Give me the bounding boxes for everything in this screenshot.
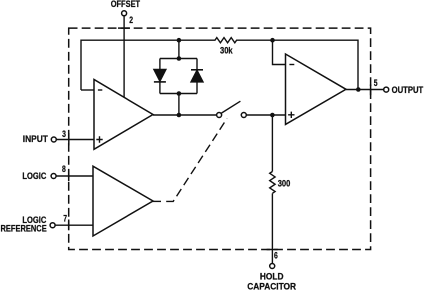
wire: rail drop to U2 inverting input (273, 40, 286, 64)
svg-text:7: 7 (63, 214, 67, 224)
svg-text:2: 2 (129, 15, 133, 25)
resistor R2 300 (270, 172, 275, 194)
IC boundary dashed box (69, 28, 371, 249)
svg-text:HOLD: HOLD (260, 271, 284, 281)
junction: hold node (270, 113, 275, 118)
wire: U1 output to switch (153, 114, 217, 116)
op-amp U1 (input buffer) (94, 80, 153, 150)
diode D2 (pointing up) (191, 70, 203, 82)
svg-text:REFERENCE: REFERENCE (1, 224, 47, 234)
svg-text:5: 5 (374, 78, 378, 88)
switch arm (221, 101, 240, 113)
pin 5 border tick (370, 84, 372, 95)
switch left contact (217, 113, 222, 118)
wire: INPUT to U1 + (57, 139, 95, 141)
wire: comparator dashed actuator link (153, 200, 162, 202)
junction: diode bridge bottom (177, 91, 182, 96)
pin 8 LOGIC terminal (51, 174, 56, 179)
pin 7 LOGIC REFERENCE terminal (50, 223, 55, 228)
svg-text:INPUT: INPUT (23, 134, 49, 144)
junction: U2 output / feedback (356, 87, 361, 92)
U1 plus sign (96, 136, 102, 142)
op-amp U2 (output buffer) (286, 54, 347, 124)
wire: offset pin down to U1 (123, 16, 125, 97)
U2 minus sign (289, 64, 294, 66)
junction: U1 output / diode drop (177, 113, 182, 118)
junction: rail / U2 minus drop (270, 38, 275, 43)
wire: LOGIC to U3 (56, 175, 93, 177)
svg-text:CAPACITOR: CAPACITOR (247, 281, 296, 291)
pin 2 border tick (118, 27, 130, 29)
pin 8 border tick (68, 170, 70, 181)
wire: diode bridge bottom to U1 output wire (178, 94, 180, 116)
diode D1 cathode bar (154, 81, 166, 83)
wire: U2 output (346, 89, 384, 91)
svg-text:6: 6 (274, 251, 278, 261)
diode D1 leads (159, 59, 161, 94)
wire: feedback top rail with 30k resistor R1 (81, 38, 358, 90)
wire: resistor to pin 6 (271, 193, 273, 263)
pin 3 INPUT terminal (51, 137, 56, 142)
U2 plus sign (288, 112, 294, 118)
junction: rail / diode drop (177, 38, 182, 43)
svg-text:LOGIC: LOGIC (22, 171, 46, 181)
wire: switch to U2 + input (246, 114, 285, 116)
diode bridge top rail (160, 58, 197, 60)
wire: rail drop to diode bridge top (178, 40, 180, 58)
svg-text:OUTPUT: OUTPUT (392, 85, 424, 95)
pin 7 border tick (68, 220, 70, 231)
svg-text:30k: 30k (220, 45, 233, 55)
svg-text:3: 3 (62, 129, 66, 139)
pin 6 border tick (267, 249, 278, 251)
switch right contact (241, 113, 246, 118)
pin 2 OFFSET terminal (122, 11, 127, 16)
junction: diode bridge top (177, 56, 182, 61)
diode D2 cathode bar (191, 69, 203, 71)
pin 5 OUTPUT terminal (384, 87, 389, 92)
pin 3 border tick (68, 133, 70, 146)
svg-text:300: 300 (278, 179, 291, 189)
pin 6 HOLD CAPACITOR terminal (270, 264, 275, 269)
wire: LOGIC REFERENCE to U3 (55, 224, 93, 226)
diode D1 (pointing down) (154, 69, 166, 81)
wire: into U1 inverting input (81, 89, 94, 91)
wire: hold node down to resistor R2 (271, 115, 273, 172)
U1 minus sign (98, 89, 102, 91)
diode D2 leads (196, 59, 198, 94)
svg-text:8: 8 (62, 164, 66, 174)
comparator U3 (logic input) (93, 166, 153, 236)
svg-text:OFFSET: OFFSET (111, 0, 141, 9)
diode bridge bottom rail (160, 93, 197, 95)
